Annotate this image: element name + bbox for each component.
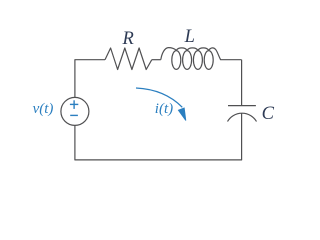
svg-text:v(t): v(t) [33,101,54,117]
svg-text:C: C [262,104,275,124]
svg-text:i(t): i(t) [155,101,173,117]
svg-text:R: R [122,29,134,49]
svg-text:L: L [184,27,195,47]
